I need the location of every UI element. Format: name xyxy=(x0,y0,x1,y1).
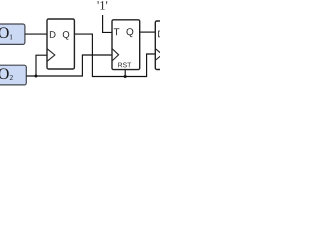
port O1 box xyxy=(0,24,25,44)
port O1 xyxy=(0,24,25,44)
U2 pin label T xyxy=(114,28,120,35)
U3 clock triangle xyxy=(156,49,163,60)
U2 pin label Q xyxy=(126,28,133,37)
U3 body xyxy=(155,21,169,70)
wire T-FF Q to next stage xyxy=(140,31,156,33)
label O xyxy=(0,27,9,38)
node clock junction xyxy=(34,75,37,78)
flip-flop U2 T with RST xyxy=(112,20,140,70)
flip-flop U3 partial at right edge xyxy=(155,21,169,70)
U2 body xyxy=(112,20,140,70)
wire D-FF Q to reset rail and right clock xyxy=(74,34,155,76)
label O xyxy=(0,68,9,79)
U2 clock triangle xyxy=(112,49,118,61)
U1 pin label D xyxy=(50,31,56,38)
label subscript 1 xyxy=(10,34,13,39)
U2 pin label RST xyxy=(118,63,131,68)
wire O2 clock rail xyxy=(26,55,112,76)
wire clock branch to D flip-flop xyxy=(36,55,47,76)
wire RST pin drop xyxy=(124,70,126,77)
constant '1' value label xyxy=(98,1,108,9)
flip-flop U1 D xyxy=(47,19,74,69)
U3 pin label D xyxy=(158,31,164,38)
label subscript 2 xyxy=(10,75,13,80)
U1 body xyxy=(47,19,74,69)
port O2 xyxy=(0,65,26,85)
U1 pin label Q xyxy=(63,31,69,39)
U1 clock triangle xyxy=(47,49,54,61)
wire O1 to D input xyxy=(25,33,47,35)
wire constant 1 to T input xyxy=(103,15,112,32)
port O2 box xyxy=(0,65,26,85)
node RST junction xyxy=(124,75,127,78)
